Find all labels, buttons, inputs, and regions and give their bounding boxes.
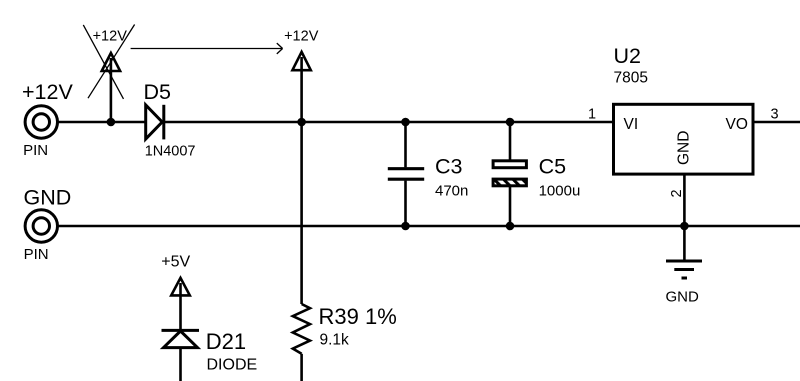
svg-text:GND: GND — [676, 131, 693, 165]
svg-text:R39 1%: R39 1% — [319, 304, 397, 329]
svg-text:1N4007: 1N4007 — [145, 144, 196, 160]
svg-text:DIODE: DIODE — [207, 356, 258, 373]
svg-text:GND: GND — [666, 289, 700, 306]
svg-text:U2: U2 — [614, 44, 641, 68]
svg-text:VO: VO — [726, 116, 748, 133]
svg-text:1000u: 1000u — [539, 183, 581, 200]
svg-text:1: 1 — [588, 107, 596, 123]
svg-text:C5: C5 — [539, 155, 567, 179]
svg-text:PIN: PIN — [23, 142, 48, 159]
svg-text:+12V: +12V — [93, 28, 128, 44]
svg-text:D5: D5 — [144, 80, 172, 104]
svg-text:C3: C3 — [435, 155, 463, 179]
svg-text:+5V: +5V — [161, 254, 190, 271]
svg-text:GND: GND — [24, 186, 72, 210]
svg-text:+12V: +12V — [284, 28, 319, 44]
svg-text:7805: 7805 — [614, 70, 648, 87]
svg-text:3: 3 — [771, 107, 779, 123]
svg-text:2: 2 — [669, 189, 685, 197]
svg-text:PIN: PIN — [24, 246, 49, 263]
svg-text:VI: VI — [624, 116, 639, 133]
svg-text:D21: D21 — [206, 329, 246, 354]
svg-text:470n: 470n — [435, 182, 468, 199]
svg-text:+12V: +12V — [22, 80, 73, 104]
svg-text:9.1k: 9.1k — [320, 332, 350, 349]
